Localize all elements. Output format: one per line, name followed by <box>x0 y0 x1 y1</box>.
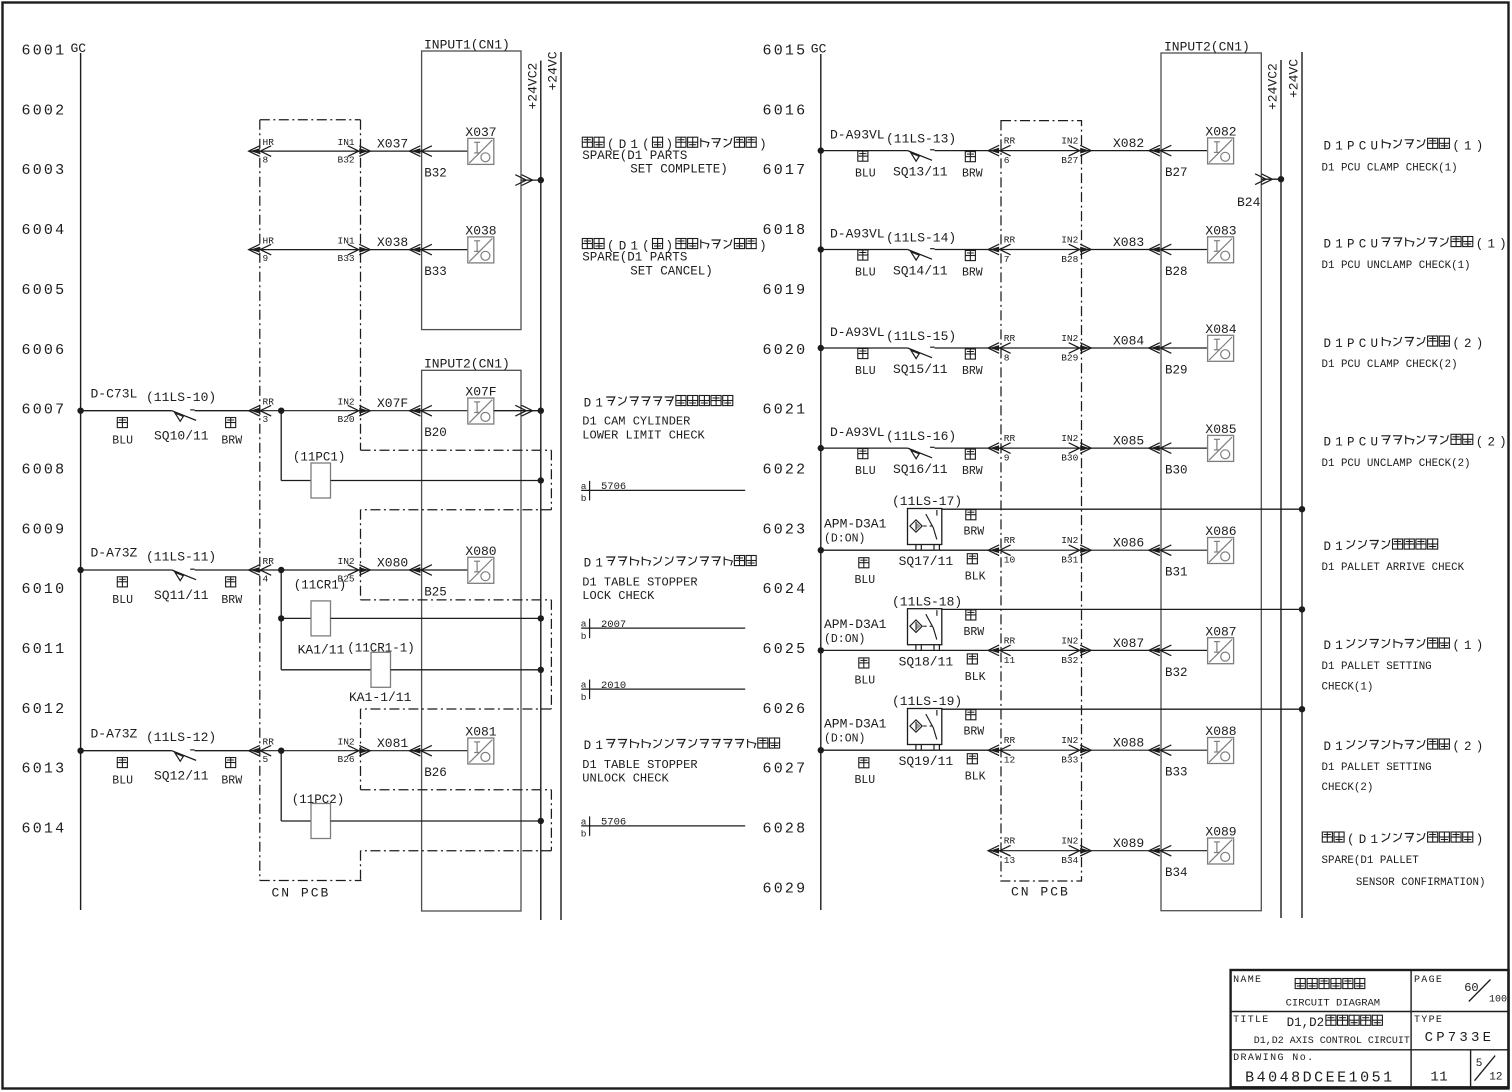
svg-text:IN2: IN2 <box>1061 635 1078 646</box>
svg-text:CHECK(2): CHECK(2) <box>1322 782 1374 794</box>
svg-text:RR: RR <box>1004 635 1016 646</box>
svg-text:D-A93VL: D-A93VL <box>830 227 885 242</box>
svg-text:(: ( <box>1452 337 1460 351</box>
svg-text:BLU: BLU <box>855 774 876 787</box>
svg-text:D-C73L: D-C73L <box>91 386 138 401</box>
svg-text:10: 10 <box>1004 555 1016 566</box>
svg-text:6019: 6019 <box>763 282 808 299</box>
svg-text:6023: 6023 <box>763 521 808 538</box>
svg-text:B30: B30 <box>1061 453 1078 464</box>
svg-text:): ) <box>1476 139 1484 153</box>
svg-text:SQ12/11: SQ12/11 <box>154 769 209 784</box>
svg-text:a: a <box>581 816 587 827</box>
svg-text:6025: 6025 <box>763 641 808 658</box>
svg-text:BLU: BLU <box>855 574 876 587</box>
svg-text:X083: X083 <box>1113 235 1144 250</box>
svg-text:IN2: IN2 <box>338 397 355 408</box>
svg-text:1: 1 <box>1335 139 1343 153</box>
svg-text:X080: X080 <box>465 544 496 559</box>
svg-text:X089: X089 <box>1113 836 1144 851</box>
svg-text:C: C <box>1359 238 1367 252</box>
svg-text:1: 1 <box>1370 833 1378 847</box>
svg-text:(11LS-17): (11LS-17) <box>892 494 962 509</box>
svg-text:RR: RR <box>263 397 275 408</box>
svg-text:6016: 6016 <box>763 102 808 119</box>
svg-text:SQ18/11: SQ18/11 <box>899 654 954 669</box>
svg-text:X085: X085 <box>1205 422 1236 437</box>
svg-text:SPARE(D1 PALLET: SPARE(D1 PALLET <box>1322 855 1420 867</box>
svg-text:X089: X089 <box>1205 825 1236 840</box>
svg-text:SQ14/11: SQ14/11 <box>893 264 948 279</box>
svg-text:6015: 6015 <box>763 43 808 60</box>
svg-text:(: ( <box>1347 833 1355 847</box>
svg-text:11: 11 <box>1430 1070 1448 1086</box>
svg-text:B32: B32 <box>1165 666 1188 680</box>
svg-text:HR: HR <box>263 236 275 247</box>
svg-text:IN2: IN2 <box>1061 136 1078 147</box>
svg-text:BLU: BLU <box>112 775 133 788</box>
svg-text:): ) <box>759 240 767 254</box>
svg-text:BLK: BLK <box>965 571 986 584</box>
svg-text:BRW: BRW <box>964 726 985 739</box>
svg-text:B33: B33 <box>338 253 355 264</box>
svg-text:(11PC2): (11PC2) <box>292 793 345 807</box>
svg-text:6: 6 <box>1004 155 1010 166</box>
svg-text:C: C <box>1359 435 1367 449</box>
svg-text:P: P <box>1347 238 1355 252</box>
svg-text:P: P <box>1347 435 1355 449</box>
svg-text:NAME: NAME <box>1233 975 1262 986</box>
svg-text:SQ17/11: SQ17/11 <box>899 554 954 569</box>
svg-text:IN2: IN2 <box>1061 836 1078 847</box>
svg-text:INPUT1(CN1): INPUT1(CN1) <box>424 38 510 53</box>
svg-text:B4048DCEE1051: B4048DCEE1051 <box>1245 1070 1395 1087</box>
svg-text:X086: X086 <box>1205 524 1236 539</box>
svg-text:D: D <box>1324 435 1332 449</box>
svg-text:D-A73Z: D-A73Z <box>91 546 138 561</box>
svg-text:X038: X038 <box>465 224 496 239</box>
svg-text:PAGE: PAGE <box>1414 975 1443 986</box>
svg-text:(11LS-14): (11LS-14) <box>886 231 956 246</box>
svg-text:CIRCUIT DIAGRAM: CIRCUIT DIAGRAM <box>1286 998 1381 1010</box>
svg-text:IN2: IN2 <box>1061 735 1078 746</box>
svg-text:BRW: BRW <box>962 465 983 478</box>
svg-text:6012: 6012 <box>22 701 67 718</box>
svg-text:C: C <box>1359 139 1367 153</box>
svg-text:X083: X083 <box>1205 224 1236 239</box>
svg-text:IN2: IN2 <box>1061 333 1078 344</box>
svg-text:B26: B26 <box>338 754 355 765</box>
svg-text:b: b <box>581 692 587 703</box>
svg-text:APM-D3A1: APM-D3A1 <box>824 717 887 732</box>
svg-text:2010: 2010 <box>601 680 626 692</box>
svg-text:D-A93VL: D-A93VL <box>830 128 885 143</box>
svg-text:X081: X081 <box>465 725 496 740</box>
svg-text:D: D <box>1359 833 1367 847</box>
svg-text:B31: B31 <box>1165 566 1188 580</box>
svg-text:X084: X084 <box>1205 322 1236 337</box>
svg-text:BLU: BLU <box>112 435 133 448</box>
svg-text:IN2: IN2 <box>338 737 355 748</box>
svg-text:6007: 6007 <box>22 402 67 419</box>
svg-text:6021: 6021 <box>763 402 808 419</box>
svg-text:X087: X087 <box>1113 636 1144 651</box>
svg-text:6022: 6022 <box>763 461 808 478</box>
svg-text:a: a <box>581 619 587 630</box>
svg-text:+24VC: +24VC <box>546 51 561 90</box>
svg-text:): ) <box>1499 238 1507 252</box>
svg-text:6010: 6010 <box>22 581 67 598</box>
svg-text:CN PCB: CN PCB <box>1011 885 1070 900</box>
svg-text:1: 1 <box>1335 639 1343 653</box>
svg-text:X088: X088 <box>1205 724 1236 739</box>
svg-text:C: C <box>1359 337 1367 351</box>
svg-text:6026: 6026 <box>763 701 808 718</box>
svg-text:X081: X081 <box>377 736 408 751</box>
svg-text:X085: X085 <box>1113 434 1144 449</box>
svg-text:D1 TABLE STOPPER: D1 TABLE STOPPER <box>582 576 697 590</box>
svg-text:1: 1 <box>1464 139 1472 153</box>
svg-text:HR: HR <box>263 137 275 148</box>
svg-text:B33: B33 <box>1165 766 1188 780</box>
svg-text:RR: RR <box>1004 235 1016 246</box>
svg-text:D: D <box>1324 139 1332 153</box>
svg-text:SQ11/11: SQ11/11 <box>154 588 209 603</box>
svg-text:(11LS-15): (11LS-15) <box>886 329 956 344</box>
svg-text:(11LS-18): (11LS-18) <box>892 594 962 609</box>
svg-text:6014: 6014 <box>22 821 67 838</box>
svg-text:RR: RR <box>1004 433 1016 444</box>
svg-text:1: 1 <box>595 739 603 753</box>
svg-text:U: U <box>1370 238 1378 252</box>
svg-text:SET CANCEL): SET CANCEL) <box>630 264 713 278</box>
svg-text:1: 1 <box>595 557 603 571</box>
svg-text:X037: X037 <box>465 125 496 140</box>
svg-text:D1,D2: D1,D2 <box>1287 1016 1325 1030</box>
svg-text:1: 1 <box>1464 639 1472 653</box>
svg-text:BLU: BLU <box>855 465 876 478</box>
svg-text:9: 9 <box>1004 453 1010 464</box>
svg-text:B24: B24 <box>1237 195 1261 210</box>
svg-text:D-A93VL: D-A93VL <box>830 325 885 340</box>
svg-text:DRAWING No.: DRAWING No. <box>1233 1053 1314 1064</box>
svg-text:D1 CAM CYLINDER: D1 CAM CYLINDER <box>582 415 690 429</box>
svg-text:2007: 2007 <box>601 619 626 631</box>
svg-text:BRW: BRW <box>221 435 242 448</box>
svg-text:2: 2 <box>1487 435 1495 449</box>
svg-text:X07F: X07F <box>377 396 408 411</box>
svg-text:D: D <box>1324 337 1332 351</box>
svg-text:6029: 6029 <box>763 880 808 897</box>
svg-text:UNLOCK CHECK: UNLOCK CHECK <box>582 772 669 786</box>
svg-text:(11CR1-1): (11CR1-1) <box>347 642 415 656</box>
svg-text:B32: B32 <box>1061 655 1078 666</box>
svg-text:(11PC1): (11PC1) <box>293 450 346 464</box>
svg-text:6006: 6006 <box>22 342 67 359</box>
svg-text:X086: X086 <box>1113 536 1144 551</box>
svg-text:RR: RR <box>263 556 275 567</box>
svg-text:BRW: BRW <box>964 526 985 539</box>
svg-text:1: 1 <box>1335 337 1343 351</box>
svg-text:D: D <box>1324 740 1332 754</box>
svg-text:5706: 5706 <box>601 481 626 493</box>
svg-text:IN2: IN2 <box>338 556 355 567</box>
svg-text:12: 12 <box>1489 1072 1502 1084</box>
svg-text:5: 5 <box>1476 1058 1483 1070</box>
svg-text:D1 PALLET SETTING: D1 PALLET SETTING <box>1322 661 1432 673</box>
svg-text:BLU: BLU <box>855 267 876 280</box>
svg-text:RR: RR <box>1004 735 1016 746</box>
svg-text:B28: B28 <box>1061 254 1078 265</box>
svg-text:): ) <box>1476 833 1484 847</box>
svg-text:6020: 6020 <box>763 342 808 359</box>
svg-text:BRW: BRW <box>962 267 983 280</box>
svg-text:B25: B25 <box>424 586 447 600</box>
svg-text:IN2: IN2 <box>1061 235 1078 246</box>
svg-text:b: b <box>581 493 587 504</box>
svg-text:B33: B33 <box>1061 755 1078 766</box>
svg-text:B27: B27 <box>1061 155 1078 166</box>
svg-text:U: U <box>1370 139 1378 153</box>
svg-text:6013: 6013 <box>22 761 67 778</box>
svg-text:2: 2 <box>1464 740 1472 754</box>
svg-text:BRW: BRW <box>962 365 983 378</box>
svg-text:P: P <box>1347 337 1355 351</box>
svg-text:(D:ON): (D:ON) <box>824 533 865 546</box>
svg-text:6005: 6005 <box>22 282 67 299</box>
svg-text:SQ15/11: SQ15/11 <box>893 362 948 377</box>
svg-text:6004: 6004 <box>22 222 67 239</box>
svg-text:B26: B26 <box>424 766 447 780</box>
svg-text:B29: B29 <box>1061 353 1078 364</box>
svg-text:BLU: BLU <box>855 365 876 378</box>
svg-text:BLU: BLU <box>855 168 876 181</box>
svg-text:TYPE: TYPE <box>1414 1015 1443 1026</box>
svg-text:3: 3 <box>263 414 269 425</box>
svg-text:IN2: IN2 <box>1061 433 1078 444</box>
svg-text:1: 1 <box>1487 238 1495 252</box>
svg-text:X080: X080 <box>377 556 408 571</box>
svg-text:B34: B34 <box>1061 855 1078 866</box>
svg-text:INPUT2(CN1): INPUT2(CN1) <box>424 357 510 372</box>
svg-text:X082: X082 <box>1113 136 1144 151</box>
svg-text:SQ13/11: SQ13/11 <box>893 165 948 180</box>
svg-text:U: U <box>1370 337 1378 351</box>
svg-text:8: 8 <box>263 155 269 166</box>
svg-text:(11LS-16): (11LS-16) <box>886 429 956 444</box>
svg-text:BLU: BLU <box>112 594 133 607</box>
svg-text:13: 13 <box>1004 855 1016 866</box>
svg-text:BRW: BRW <box>221 594 242 607</box>
svg-text:D: D <box>584 739 592 753</box>
svg-text:D1 PCU UNCLAMP CHECK(2): D1 PCU UNCLAMP CHECK(2) <box>1322 458 1471 470</box>
svg-text:RR: RR <box>1004 333 1016 344</box>
svg-text:9: 9 <box>263 253 269 264</box>
svg-text:+24VC2: +24VC2 <box>1266 63 1281 110</box>
svg-text:B28: B28 <box>1165 265 1188 279</box>
svg-text:B27: B27 <box>1165 166 1188 180</box>
svg-text:X088: X088 <box>1113 736 1144 751</box>
svg-text:BRW: BRW <box>221 775 242 788</box>
svg-text:B20: B20 <box>424 426 447 440</box>
svg-text:INPUT2(CN1): INPUT2(CN1) <box>1164 40 1250 55</box>
svg-text:B31: B31 <box>1061 555 1078 566</box>
svg-text:12: 12 <box>1004 755 1016 766</box>
svg-text:1: 1 <box>1335 238 1343 252</box>
svg-text:b: b <box>581 631 587 642</box>
svg-text:6008: 6008 <box>22 461 67 478</box>
svg-text:B20: B20 <box>338 414 355 425</box>
svg-text:U: U <box>1370 435 1378 449</box>
svg-text:TITLE: TITLE <box>1233 1015 1270 1026</box>
svg-text:D: D <box>1324 540 1332 554</box>
svg-text:D1 PCU UNCLAMP CHECK(1): D1 PCU UNCLAMP CHECK(1) <box>1322 260 1471 272</box>
svg-text:6018: 6018 <box>763 222 808 239</box>
svg-text:(11LS-11): (11LS-11) <box>146 549 216 564</box>
svg-text:B29: B29 <box>1165 364 1188 378</box>
svg-text:(11CR1): (11CR1) <box>294 579 347 593</box>
svg-text:6009: 6009 <box>22 521 67 538</box>
svg-text:6011: 6011 <box>22 641 67 658</box>
svg-text:100: 100 <box>1489 995 1507 1006</box>
svg-text:6003: 6003 <box>22 162 67 179</box>
svg-text:IN1: IN1 <box>338 236 355 247</box>
svg-text:5: 5 <box>263 754 269 765</box>
svg-text:D1,D2 AXIS CONTROL CIRCUIT: D1,D2 AXIS CONTROL CIRCUIT <box>1254 1036 1410 1047</box>
svg-text:D: D <box>1324 238 1332 252</box>
svg-text:+24VC: +24VC <box>1287 59 1302 98</box>
svg-text:RR: RR <box>1004 136 1016 147</box>
svg-text:1: 1 <box>1335 740 1343 754</box>
svg-text:LOWER LIMIT CHECK: LOWER LIMIT CHECK <box>582 428 705 442</box>
svg-text:IN1: IN1 <box>338 137 355 148</box>
svg-text:BLU: BLU <box>855 674 876 687</box>
svg-text:1: 1 <box>595 397 603 411</box>
svg-text:D1 TABLE STOPPER: D1 TABLE STOPPER <box>582 758 697 772</box>
svg-text:SQ16/11: SQ16/11 <box>893 462 948 477</box>
svg-text:SQ10/11: SQ10/11 <box>154 429 209 444</box>
svg-text:D1 PCU CLAMP CHECK(2): D1 PCU CLAMP CHECK(2) <box>1322 359 1458 371</box>
svg-text:(11LS-10): (11LS-10) <box>146 390 216 405</box>
svg-text:RR: RR <box>263 737 275 748</box>
svg-text:): ) <box>1476 337 1484 351</box>
svg-text:D: D <box>1324 639 1332 653</box>
svg-text:KA1/11: KA1/11 <box>298 643 345 658</box>
svg-text:B33: B33 <box>424 265 447 279</box>
svg-text:8: 8 <box>1004 353 1010 364</box>
svg-text:1: 1 <box>1335 435 1343 449</box>
svg-text:B34: B34 <box>1165 866 1188 880</box>
svg-text:SENSOR CONFIRMATION): SENSOR CONFIRMATION) <box>1356 877 1486 889</box>
svg-text:D: D <box>584 397 592 411</box>
svg-text:CHECK(1): CHECK(1) <box>1322 682 1374 694</box>
svg-text:X038: X038 <box>377 235 408 250</box>
svg-text:D: D <box>584 557 592 571</box>
svg-text:LOCK CHECK: LOCK CHECK <box>582 589 655 603</box>
svg-text:SPARE(D1 PARTS: SPARE(D1 PARTS <box>582 250 687 264</box>
svg-text:a: a <box>581 481 587 492</box>
svg-text:(: ( <box>1476 238 1484 252</box>
svg-text:SPARE(D1 PARTS: SPARE(D1 PARTS <box>582 149 687 163</box>
svg-text:b: b <box>581 829 587 840</box>
svg-text:6027: 6027 <box>763 761 808 778</box>
svg-text:IN2: IN2 <box>1061 535 1078 546</box>
svg-text:): ) <box>1476 740 1484 754</box>
svg-text:(: ( <box>1476 435 1484 449</box>
svg-text:CP733E: CP733E <box>1425 1030 1495 1046</box>
svg-text:SQ19/11: SQ19/11 <box>899 754 954 769</box>
svg-text:X07F: X07F <box>465 385 496 400</box>
svg-text:6002: 6002 <box>22 102 67 119</box>
svg-text:D1 PALLET SETTING: D1 PALLET SETTING <box>1322 762 1432 774</box>
svg-text:P: P <box>1347 139 1355 153</box>
svg-text:CN PCB: CN PCB <box>272 886 331 901</box>
svg-text:(D:ON): (D:ON) <box>824 733 865 746</box>
svg-text:APM-D3A1: APM-D3A1 <box>824 617 887 632</box>
svg-text:D-A73Z: D-A73Z <box>91 726 138 741</box>
svg-text:GC: GC <box>811 42 827 57</box>
svg-text:D-A93VL: D-A93VL <box>830 425 885 440</box>
svg-text:): ) <box>759 138 767 152</box>
svg-text:5706: 5706 <box>601 817 626 829</box>
svg-text:(11LS-19): (11LS-19) <box>892 694 962 709</box>
svg-text:BLK: BLK <box>965 671 986 684</box>
svg-text:6017: 6017 <box>763 162 808 179</box>
svg-text:a: a <box>581 680 587 691</box>
svg-text:X037: X037 <box>377 137 408 152</box>
svg-text:KA1-1/11: KA1-1/11 <box>349 690 412 705</box>
svg-text:1: 1 <box>1335 540 1343 554</box>
svg-text:(: ( <box>1452 139 1460 153</box>
svg-text:B32: B32 <box>424 167 447 181</box>
svg-text:D1 PCU CLAMP CHECK(1): D1 PCU CLAMP CHECK(1) <box>1322 163 1458 175</box>
svg-text:): ) <box>1476 639 1484 653</box>
svg-text:(11LS-12): (11LS-12) <box>146 730 216 745</box>
svg-text:(: ( <box>1452 740 1460 754</box>
svg-text:RR: RR <box>1004 535 1016 546</box>
svg-text:GC: GC <box>71 41 87 56</box>
svg-text:4: 4 <box>263 574 269 585</box>
svg-text:APM-D3A1: APM-D3A1 <box>824 517 887 532</box>
svg-text:B30: B30 <box>1165 464 1188 478</box>
svg-text:6001: 6001 <box>22 43 67 60</box>
svg-text:BRW: BRW <box>964 626 985 639</box>
svg-text:SET COMPLETE): SET COMPLETE) <box>630 163 728 177</box>
svg-text:(D:ON): (D:ON) <box>824 633 865 646</box>
svg-text:2: 2 <box>1464 337 1472 351</box>
svg-text:X087: X087 <box>1205 624 1236 639</box>
svg-text:B32: B32 <box>338 155 355 166</box>
svg-text:7: 7 <box>1004 254 1010 265</box>
svg-text:6028: 6028 <box>763 821 808 838</box>
svg-text:6024: 6024 <box>763 581 808 598</box>
svg-text:(: ( <box>1452 639 1460 653</box>
svg-text:(11LS-13): (11LS-13) <box>886 132 956 147</box>
svg-text:RR: RR <box>1004 836 1016 847</box>
svg-text:X082: X082 <box>1205 125 1236 140</box>
svg-text:D1 PALLET ARRIVE CHECK: D1 PALLET ARRIVE CHECK <box>1322 562 1465 574</box>
svg-text:+24VC2: +24VC2 <box>526 63 541 110</box>
svg-text:11: 11 <box>1004 655 1016 666</box>
svg-text:): ) <box>1499 435 1507 449</box>
svg-text:BRW: BRW <box>962 168 983 181</box>
svg-text:X084: X084 <box>1113 334 1144 349</box>
svg-text:BLK: BLK <box>965 771 986 784</box>
